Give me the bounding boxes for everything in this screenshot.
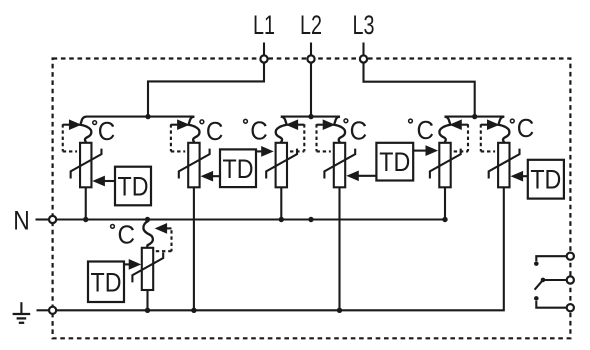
bar L1 (RV1-RV2) (86, 116, 194, 118)
label °C RV3 (244, 116, 268, 146)
junction RV5/N (442, 217, 447, 222)
svg-text:C: C (417, 115, 435, 145)
terminal PE (49, 307, 56, 314)
terminal signal 2 (567, 276, 574, 283)
junction RV4/PE (337, 308, 342, 313)
varistor RV7 (132, 248, 163, 290)
junction RV7/PE (145, 308, 150, 313)
terminal L1 (260, 43, 267, 63)
thermal disconnector F3 (276, 117, 305, 152)
svg-text:C: C (250, 116, 267, 146)
varistor RV2 (179, 143, 210, 188)
svg-text:C: C (517, 113, 535, 143)
TD box TD2 (220, 149, 256, 187)
terminal L3 (360, 43, 367, 63)
svg-text:TD: TD (530, 165, 561, 195)
svg-text:C: C (350, 115, 368, 145)
thermal disconnector F6 (481, 117, 510, 152)
svg-text:C: C (98, 116, 116, 146)
wire RV1 to N bus (85, 187, 87, 219)
wire N lead (36, 218, 50, 220)
signal contact common lever (535, 278, 567, 290)
signal contact lower fixed (534, 296, 567, 308)
junction L1/bar (145, 114, 150, 119)
TD box TD4 (528, 160, 564, 199)
N bus (56, 218, 445, 220)
wire PE lead (37, 309, 50, 311)
label °C RV7 (111, 220, 135, 250)
wire RV5 to N bus (444, 187, 446, 219)
junction L2/bar (308, 114, 313, 119)
arrow TD2 to RV2 (202, 172, 220, 181)
junction RV2/PE (191, 308, 196, 313)
arrow TD3 to RV5 (413, 146, 437, 155)
label °C RV6 (510, 113, 534, 143)
TD box TD1 (115, 167, 151, 206)
svg-text:N: N (13, 205, 30, 235)
TD box TD5 (88, 262, 124, 303)
terminal N (49, 216, 56, 223)
wire RV2 to PE bus (193, 187, 195, 310)
terminal L2 (307, 43, 314, 63)
svg-text:L3: L3 (353, 10, 375, 40)
terminal signal 1 (567, 253, 574, 260)
bar L2 (RV3-RV4) (281, 116, 340, 118)
svg-text:L1: L1 (253, 10, 275, 40)
signal contact upper fixed (534, 256, 567, 266)
TD box TD3 (376, 143, 413, 181)
varistor RV1 (71, 143, 102, 188)
svg-text:TD: TD (223, 154, 254, 184)
arrow TD3 to RV4 (348, 171, 377, 180)
wire L3 to bar (364, 63, 475, 117)
arrow TD5 to RV7 (124, 260, 140, 269)
svg-text:C: C (206, 116, 224, 146)
thermal disconnector F7 (143, 221, 171, 251)
arrow TD2 to RV3 (256, 147, 273, 156)
varistor RV6 (489, 143, 520, 188)
svg-text:C: C (118, 220, 136, 250)
svg-text:TD: TD (91, 267, 122, 297)
wire RV3 to N bus (280, 187, 282, 219)
wire RV7 to PE bus (146, 290, 148, 310)
ground symbol (13, 302, 31, 323)
label °C RV4 (344, 115, 367, 145)
junction L3/bar (472, 114, 477, 119)
label °C RV2 (200, 116, 223, 146)
arrow TD1 to RV1 (94, 176, 115, 185)
terminal signal 3 (567, 304, 574, 311)
svg-text:L2: L2 (300, 10, 322, 40)
wire L2 to bar (310, 63, 312, 117)
varistor RV4 (324, 143, 355, 188)
varistor RV3 (266, 143, 297, 188)
arrow TD4 to RV6 (512, 172, 528, 181)
thermal disconnector F2 (171, 117, 200, 152)
thermal disconnector F1 (63, 117, 92, 152)
junction RV3/N (279, 217, 284, 222)
svg-text:TD: TD (118, 172, 149, 202)
junction RV1/N (83, 217, 88, 222)
varistor RV5 (430, 143, 461, 188)
thermal disconnector F4 (317, 117, 346, 152)
label °C RV5 (409, 115, 434, 145)
junction N-PE branch top (145, 217, 150, 222)
svg-text:TD: TD (379, 147, 410, 177)
label °C RV1 (93, 116, 116, 146)
wire L1 to bar (148, 63, 264, 117)
wire RV4 to PE bus (338, 187, 340, 310)
junction node N mid (308, 217, 313, 222)
thermal disconnector F5 (439, 117, 468, 152)
bar L3 (RV5-RV6) (445, 116, 505, 118)
PE bus (56, 187, 504, 310)
device enclosure (dashed outline) (53, 59, 571, 339)
